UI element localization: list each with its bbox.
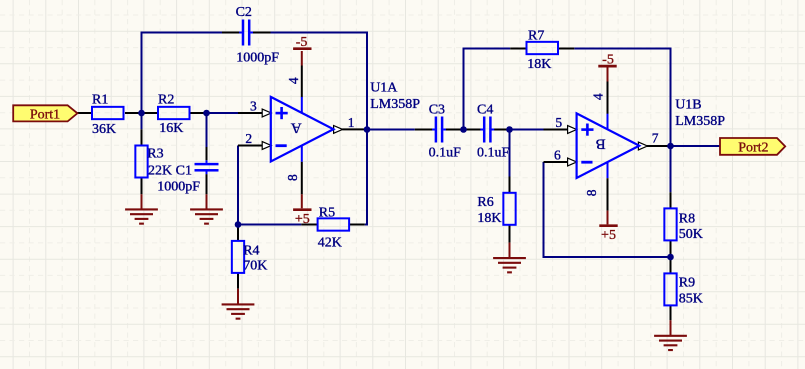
svg-text:A: A <box>291 119 302 135</box>
svg-text:8: 8 <box>285 174 300 181</box>
svg-text:7: 7 <box>652 131 659 146</box>
svg-text:18K: 18K <box>477 211 501 226</box>
svg-text:1: 1 <box>348 115 355 130</box>
svg-text:R9: R9 <box>679 276 695 291</box>
svg-text:Port1: Port1 <box>30 108 60 123</box>
svg-text:36K: 36K <box>92 122 116 137</box>
svg-text:22K C1: 22K C1 <box>148 163 192 178</box>
svg-text:50K: 50K <box>679 227 703 242</box>
svg-text:-5: -5 <box>296 35 308 50</box>
svg-text:R1: R1 <box>92 92 108 107</box>
svg-text:6: 6 <box>554 147 561 162</box>
svg-text:1000pF: 1000pF <box>157 180 200 195</box>
svg-text:4: 4 <box>286 77 301 84</box>
svg-text:+5: +5 <box>601 228 616 243</box>
svg-text:U1B: U1B <box>675 98 701 113</box>
svg-text:R7: R7 <box>528 28 544 43</box>
svg-text:0.1uF: 0.1uF <box>477 146 510 161</box>
svg-text:B: B <box>596 136 606 152</box>
svg-text:R4: R4 <box>243 243 259 258</box>
svg-text:+5: +5 <box>295 212 310 227</box>
svg-text:18K: 18K <box>527 57 551 72</box>
svg-text:85K: 85K <box>679 291 703 306</box>
svg-text:R2: R2 <box>158 92 174 107</box>
svg-text:42K: 42K <box>318 235 342 250</box>
svg-text:4: 4 <box>591 93 606 100</box>
svg-text:8: 8 <box>584 189 599 196</box>
svg-text:1000pF: 1000pF <box>236 50 279 65</box>
svg-text:C4: C4 <box>477 103 493 118</box>
svg-text:5: 5 <box>555 115 562 130</box>
svg-text:16K: 16K <box>159 121 183 136</box>
svg-text:R3: R3 <box>147 147 163 162</box>
svg-text:U1A: U1A <box>370 81 398 96</box>
svg-text:70K: 70K <box>243 258 267 273</box>
svg-text:C3: C3 <box>429 103 445 118</box>
svg-text:C2: C2 <box>236 5 252 20</box>
svg-text:Port2: Port2 <box>738 140 768 155</box>
svg-text:0.1uF: 0.1uF <box>429 146 462 161</box>
svg-text:R5: R5 <box>319 206 335 221</box>
svg-text:R6: R6 <box>477 195 493 210</box>
svg-text:LM358P: LM358P <box>675 114 725 129</box>
svg-text:3: 3 <box>250 98 257 113</box>
svg-text:LM358P: LM358P <box>370 97 420 112</box>
svg-text:R8: R8 <box>679 211 695 226</box>
svg-text:2: 2 <box>245 131 252 146</box>
svg-text:-5: -5 <box>602 52 614 67</box>
